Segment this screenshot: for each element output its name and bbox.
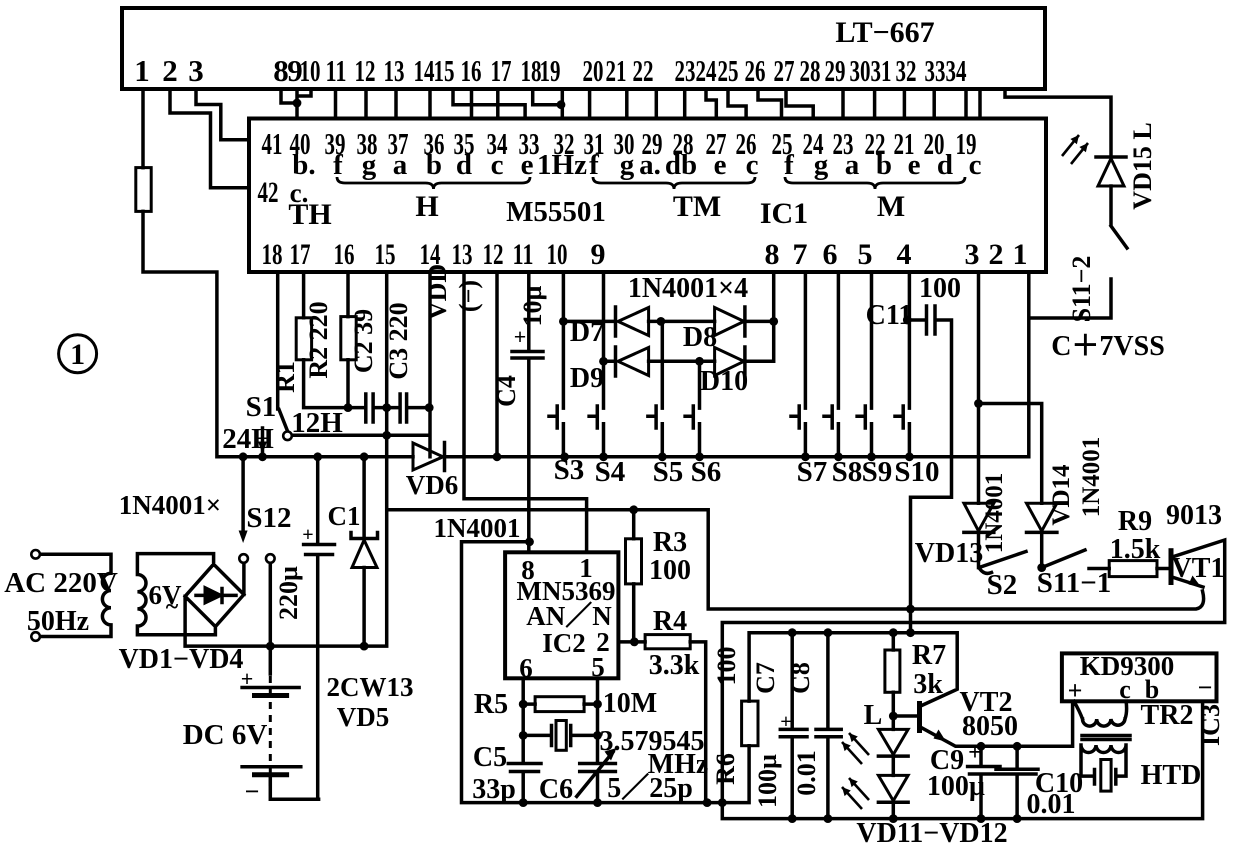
svg-text:+: + [514, 324, 527, 349]
svg-text:H: H [415, 190, 438, 223]
svg-text:c: c [969, 149, 982, 181]
svg-text:M55501: M55501 [506, 196, 606, 228]
svg-text:f: f [333, 149, 343, 181]
svg-text:23: 23 [675, 53, 696, 88]
svg-text:1: 1 [134, 53, 150, 88]
svg-text:+: + [241, 666, 254, 691]
svg-text:1: 1 [1013, 238, 1028, 271]
svg-text:10µ: 10µ [518, 285, 547, 326]
svg-text:4: 4 [897, 238, 912, 271]
svg-text:−: − [1198, 673, 1213, 702]
svg-text:VT1: VT1 [1172, 553, 1225, 584]
svg-text:18: 18 [262, 238, 283, 271]
svg-text:0.01: 0.01 [792, 750, 821, 796]
svg-text:e: e [521, 149, 534, 181]
svg-text:−: − [245, 777, 260, 806]
svg-text:3: 3 [188, 53, 204, 88]
svg-text:7: 7 [793, 238, 808, 271]
svg-text:8: 8 [765, 238, 780, 271]
svg-text:3k: 3k [913, 669, 943, 700]
svg-text:S9: S9 [862, 456, 893, 488]
svg-text:AC 220V: AC 220V [4, 567, 118, 599]
svg-text:f: f [784, 149, 794, 181]
svg-text:17: 17 [290, 238, 311, 271]
svg-text:2CW13: 2CW13 [327, 672, 414, 702]
svg-text:10: 10 [300, 53, 321, 88]
svg-text:VD15 L: VD15 L [1128, 122, 1157, 209]
svg-text:VD5: VD5 [337, 702, 390, 732]
svg-text:220µ: 220µ [274, 566, 303, 620]
svg-text:19: 19 [540, 53, 561, 88]
svg-text:VD1−VD4: VD1−VD4 [119, 644, 244, 675]
svg-text:C7: C7 [751, 662, 780, 694]
svg-text:S4: S4 [595, 456, 626, 488]
svg-text:f: f [589, 149, 599, 181]
svg-text:HTD: HTD [1141, 760, 1202, 791]
svg-text:LT−667: LT−667 [835, 16, 934, 49]
svg-text:D10: D10 [700, 366, 748, 397]
svg-text:C3 220: C3 220 [384, 302, 413, 379]
svg-text:R7: R7 [912, 640, 946, 671]
svg-text:c: c [1119, 675, 1131, 704]
svg-text:13: 13 [384, 53, 405, 88]
svg-text:12: 12 [355, 53, 376, 88]
svg-text:S6: S6 [691, 456, 722, 488]
svg-text:3: 3 [965, 238, 980, 271]
svg-text:15: 15 [434, 53, 455, 88]
svg-text:+: + [780, 711, 791, 733]
svg-text:e: e [714, 149, 727, 181]
svg-text:15: 15 [375, 238, 396, 271]
svg-text:D8: D8 [683, 322, 717, 353]
svg-text:+: + [302, 524, 313, 546]
svg-text:5: 5 [591, 652, 605, 682]
svg-text:~: ~ [166, 594, 179, 620]
svg-text:C＋7VSS: C＋7VSS [1051, 331, 1165, 362]
svg-text:10M: 10M [603, 688, 657, 719]
svg-text:C1: C1 [328, 501, 361, 531]
svg-text:IC2: IC2 [542, 628, 586, 658]
svg-text:VD11−VD12: VD11−VD12 [856, 818, 1007, 849]
svg-text:R6: R6 [711, 753, 740, 785]
svg-text:25: 25 [718, 53, 739, 88]
svg-text:a: a [845, 149, 860, 181]
svg-text:C11: C11 [866, 300, 913, 331]
svg-text:b: b [876, 149, 892, 181]
svg-text:S2: S2 [987, 569, 1018, 601]
svg-text:R4: R4 [653, 606, 687, 637]
svg-text:1N4001: 1N4001 [981, 473, 1008, 554]
svg-text:9: 9 [591, 238, 606, 271]
svg-text:S8: S8 [832, 456, 863, 488]
svg-text:D9: D9 [570, 363, 604, 394]
svg-text:C2 39: C2 39 [349, 309, 378, 373]
svg-text:C4: C4 [492, 375, 521, 407]
svg-text:1: 1 [70, 338, 85, 371]
svg-text:g: g [620, 149, 635, 181]
svg-text:20: 20 [583, 53, 604, 88]
svg-text:c: c [491, 149, 504, 181]
svg-text:10: 10 [547, 238, 568, 271]
svg-text:R1: R1 [271, 361, 300, 393]
svg-text:5／25p: 5／25p [607, 772, 693, 804]
svg-text:C6: C6 [539, 774, 573, 805]
svg-text:100: 100 [919, 273, 961, 304]
svg-text:a: a [393, 149, 408, 181]
svg-text:S12: S12 [246, 502, 291, 534]
svg-text:VDD: VDD [423, 264, 452, 320]
svg-text:R3: R3 [653, 527, 687, 558]
svg-text:M: M [877, 190, 905, 223]
svg-text:S1: S1 [246, 391, 277, 423]
svg-text:42: 42 [258, 176, 279, 209]
svg-text:TM: TM [673, 190, 721, 223]
svg-text:34: 34 [946, 53, 967, 88]
svg-text:100µ: 100µ [927, 771, 985, 802]
svg-text:S11−1: S11−1 [1037, 567, 1112, 599]
svg-text:0.01: 0.01 [1027, 789, 1076, 820]
svg-text:13: 13 [452, 238, 473, 271]
svg-text:5: 5 [858, 238, 873, 271]
svg-text:VD6: VD6 [406, 470, 459, 500]
svg-text:db: db [665, 149, 697, 181]
svg-text:16: 16 [334, 238, 355, 271]
svg-text:12: 12 [483, 238, 504, 271]
svg-text:8050: 8050 [962, 711, 1018, 742]
svg-text:2: 2 [989, 238, 1004, 271]
svg-text:1Hz: 1Hz [537, 149, 587, 181]
svg-text:(−): (−) [454, 280, 483, 312]
svg-text:d: d [937, 149, 953, 181]
svg-text:11: 11 [326, 53, 347, 88]
svg-text:DC 6V: DC 6V [183, 719, 268, 751]
svg-text:14: 14 [414, 53, 435, 88]
svg-text:100: 100 [649, 555, 691, 586]
svg-text:100µ: 100µ [753, 754, 782, 808]
svg-text:b: b [426, 149, 442, 181]
svg-text:IC1: IC1 [760, 197, 808, 230]
svg-text:33: 33 [925, 53, 946, 88]
svg-text:1N4001: 1N4001 [434, 513, 521, 543]
svg-text:6: 6 [823, 238, 838, 271]
svg-text:26: 26 [745, 53, 766, 88]
svg-text:R2 220: R2 220 [304, 301, 333, 378]
svg-text:1N4001×4: 1N4001×4 [628, 273, 748, 304]
svg-text:31: 31 [871, 53, 892, 88]
svg-text:IC3: IC3 [1196, 704, 1225, 746]
svg-text:S10: S10 [894, 456, 939, 488]
svg-text:100: 100 [712, 647, 741, 686]
svg-text:S5: S5 [653, 456, 684, 488]
svg-text:1.5k: 1.5k [1110, 534, 1161, 565]
svg-text:d: d [456, 149, 472, 181]
svg-text:9013: 9013 [1166, 500, 1222, 531]
svg-text:30: 30 [850, 53, 871, 88]
svg-text:18: 18 [521, 53, 542, 88]
svg-text:17: 17 [491, 53, 512, 88]
svg-text:a.: a. [639, 149, 661, 181]
svg-text:16: 16 [461, 53, 482, 88]
svg-text:S7: S7 [797, 456, 828, 488]
svg-text:11: 11 [513, 238, 534, 271]
svg-text:1N4001: 1N4001 [1078, 437, 1105, 518]
svg-text:24: 24 [696, 53, 717, 88]
svg-text:R9: R9 [1118, 506, 1152, 537]
svg-text:TR2: TR2 [1141, 700, 1194, 731]
svg-text:L: L [864, 700, 883, 731]
svg-text:21: 21 [606, 53, 627, 88]
svg-text:29: 29 [825, 53, 846, 88]
svg-text:28: 28 [800, 53, 821, 88]
svg-text:+: + [968, 740, 982, 766]
svg-text:6: 6 [519, 653, 533, 683]
svg-text:c: c [746, 149, 759, 181]
svg-text:D7: D7 [570, 317, 604, 348]
svg-text:S11−2: S11−2 [1067, 256, 1096, 323]
svg-text:TH: TH [288, 198, 331, 231]
svg-text:C8: C8 [786, 662, 815, 694]
svg-text:R5: R5 [474, 689, 508, 720]
svg-text:VD14: VD14 [1048, 464, 1075, 526]
svg-text:S3: S3 [554, 454, 585, 486]
svg-text:3.3k: 3.3k [649, 650, 700, 681]
svg-text:g: g [814, 149, 829, 181]
svg-text:2: 2 [162, 53, 178, 88]
svg-text:e: e [908, 149, 921, 181]
svg-text:12H: 12H [291, 407, 343, 439]
svg-text:33p: 33p [472, 774, 516, 805]
svg-text:1N4001×: 1N4001× [119, 490, 221, 520]
svg-text:g: g [362, 149, 377, 181]
svg-text:b.: b. [292, 149, 315, 181]
svg-text:VD13: VD13 [915, 538, 983, 569]
svg-text:C5: C5 [473, 742, 507, 773]
svg-text:+: + [1068, 676, 1083, 705]
svg-text:50Hz: 50Hz [27, 606, 89, 637]
svg-text:24H: 24H [222, 423, 274, 455]
svg-text:22: 22 [633, 53, 654, 88]
svg-text:32: 32 [896, 53, 917, 88]
svg-text:41: 41 [262, 126, 283, 161]
svg-text:27: 27 [774, 53, 795, 88]
